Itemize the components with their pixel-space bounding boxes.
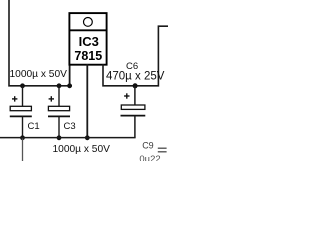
node: C1 bottom junction xyxy=(20,135,25,140)
svg-text:470µ x 25V: 470µ x 25V xyxy=(106,71,165,83)
wire: C1 positive lead xyxy=(22,86,24,107)
svg-text:1000µ x 50V: 1000µ x 50V xyxy=(10,69,68,80)
node: C3 top junction xyxy=(57,83,62,88)
capacitor C1 xyxy=(10,96,40,132)
wire: IC3 output pin to right edge xyxy=(103,26,168,86)
node: output junction at C6 xyxy=(133,83,138,88)
capacitor C3 xyxy=(48,96,76,132)
wire: riser from top rail to IC3 input pin xyxy=(69,63,71,86)
wire: IC3 ground pin to ground bus xyxy=(86,64,88,138)
wire: C3 positive lead xyxy=(58,86,60,107)
wire: left input riser and top rail xyxy=(9,0,72,86)
capacitor C9 (partial) xyxy=(139,140,166,164)
svg-text:IC3: IC3 xyxy=(79,34,99,49)
wire: C6 positive lead xyxy=(134,86,136,105)
wire: C1 negative lead xyxy=(22,117,24,138)
node: C1 top junction xyxy=(20,83,25,88)
wire: C3 negative lead xyxy=(58,117,60,138)
node: C3 bottom junction xyxy=(57,135,62,140)
wire: continuation to lower section xyxy=(22,138,24,161)
IC3 mounting hole xyxy=(84,18,93,27)
capacitor C6 xyxy=(106,61,165,116)
wire: ground bus xyxy=(0,137,136,139)
node: junction at top rail end xyxy=(67,83,72,88)
svg-text:C9: C9 xyxy=(142,140,154,150)
wire: C6 negative lead xyxy=(134,116,136,138)
IC3 package outline xyxy=(69,13,106,65)
svg-text:C1: C1 xyxy=(28,121,40,132)
IC3 tab separator xyxy=(69,29,106,31)
svg-text:0µ22: 0µ22 xyxy=(139,154,160,161)
node: ground pin junction xyxy=(85,135,90,140)
svg-text:7815: 7815 xyxy=(74,49,102,63)
svg-text:1000µ x 50V: 1000µ x 50V xyxy=(53,144,111,155)
svg-text:C3: C3 xyxy=(64,121,76,132)
